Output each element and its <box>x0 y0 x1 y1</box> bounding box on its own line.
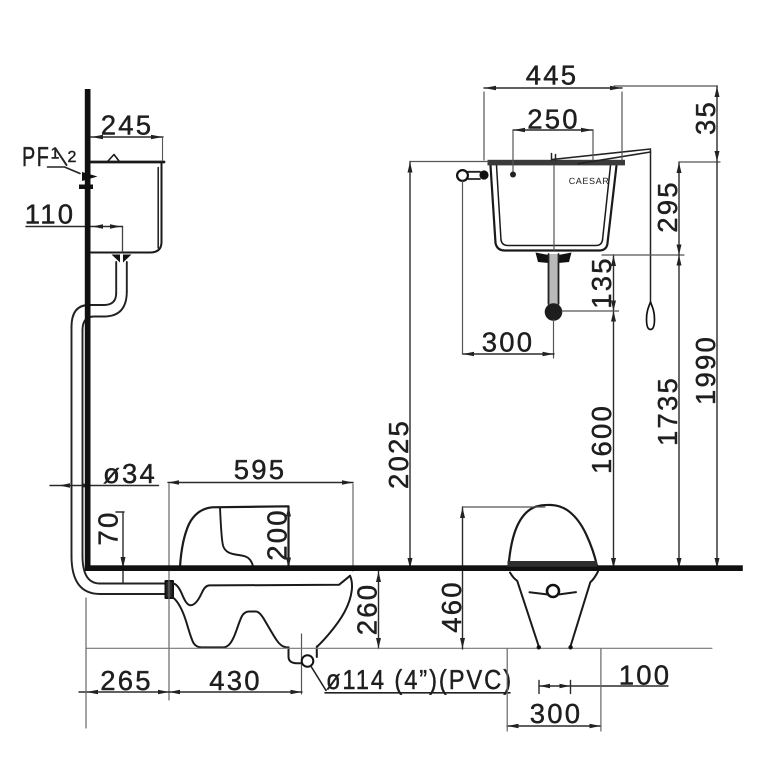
cistern (front view) body <box>491 166 617 251</box>
pipe coupling under side cistern <box>112 255 132 263</box>
svg-text:445: 445 <box>526 60 578 91</box>
floor <box>85 565 743 571</box>
svg-text:250: 250 <box>527 104 579 135</box>
svg-text:295: 295 <box>652 180 683 232</box>
pull handle teardrop <box>647 302 655 330</box>
svg-text:595: 595 <box>234 454 286 485</box>
svg-text:260: 260 <box>352 583 383 635</box>
dimension o34 <box>50 485 159 487</box>
svg-text:2: 2 <box>68 149 77 166</box>
svg-text:35: 35 <box>690 100 721 135</box>
coupling under front cistern <box>536 253 572 264</box>
cistern lid <box>488 160 626 166</box>
flush valve centerline inside tank <box>553 166 555 250</box>
outlet centerline <box>301 634 303 694</box>
cistern (side view, high tank on wall) <box>91 155 164 253</box>
squat pan (side view) hump above floor <box>180 506 289 567</box>
flush lever arm <box>552 154 556 161</box>
svg-text:110: 110 <box>25 199 75 230</box>
svg-text:1735: 1735 <box>652 376 683 446</box>
svg-text:135: 135 <box>586 256 617 308</box>
dimension 300 (front view base) <box>507 725 601 727</box>
svg-text:1600: 1600 <box>586 404 617 474</box>
dimensions 35 and 1990 shared line <box>716 86 718 569</box>
pull rod <box>650 150 652 302</box>
squat pan (front view) dome <box>509 505 598 566</box>
flush pipe (front view) <box>549 254 559 304</box>
svg-text:300: 300 <box>530 698 582 729</box>
dimension 460 <box>462 507 464 649</box>
svg-text:430: 430 <box>209 665 261 696</box>
svg-text:300: 300 <box>482 327 534 358</box>
bottom reference line at pan base level <box>86 647 712 649</box>
squat pan trap (below floor, side view) <box>173 576 352 663</box>
svg-text:200: 200 <box>262 508 293 560</box>
dimension 260 <box>378 571 380 649</box>
outlet circle o114 <box>302 655 314 667</box>
svg-text:ø114 (4”)(PVC): ø114 (4”)(PVC) <box>326 664 513 695</box>
dimension 300 (under tank) <box>463 353 555 355</box>
svg-text:PF: PF <box>22 141 51 172</box>
dimension 200 (doubles as hump right edge) <box>286 506 291 568</box>
svg-text:245: 245 <box>101 110 153 141</box>
dimension 250 <box>513 129 593 131</box>
svg-text:100: 100 <box>619 660 671 691</box>
dimension 110 <box>26 226 123 228</box>
dimension 595 <box>168 482 353 484</box>
svg-text:70: 70 <box>93 511 124 546</box>
dimension 2025 <box>409 162 411 569</box>
dimension 445 <box>484 87 622 89</box>
dimension 100 <box>539 685 668 687</box>
dimension 70 <box>116 512 124 583</box>
dimensions 295 and 1735 shared line <box>678 162 680 569</box>
leader and underline for o114 label <box>311 666 511 693</box>
supply stub tick on wall <box>79 185 93 190</box>
dome base dark strip <box>508 561 598 567</box>
taper feet junction dots <box>537 645 541 649</box>
front view below-floor taper <box>510 573 539 647</box>
dimensions 265 and 430 <box>79 691 302 693</box>
svg-text:CAESAR: CAESAR <box>569 176 610 186</box>
flush pipe outlet ball <box>545 303 563 321</box>
svg-text:2025: 2025 <box>383 419 414 489</box>
flush pipe (side view) from high cistern down along wall <box>72 262 166 594</box>
595 extension lines <box>168 484 170 700</box>
front view outlet circle and water line <box>547 585 559 597</box>
wall <box>85 89 91 566</box>
inlet knob and bolt at tank left <box>468 172 480 179</box>
supply arrow at wall <box>82 172 98 181</box>
pan inlet flange <box>166 581 174 598</box>
svg-text:ø34: ø34 <box>103 458 157 489</box>
dimensions 135 and 1600 shared line <box>613 255 615 569</box>
svg-text:1990: 1990 <box>690 335 721 405</box>
110 extension inside cistern <box>122 227 124 253</box>
svg-text:265: 265 <box>100 665 152 696</box>
svg-text:460: 460 <box>436 580 467 632</box>
dimension 245 <box>91 137 163 161</box>
